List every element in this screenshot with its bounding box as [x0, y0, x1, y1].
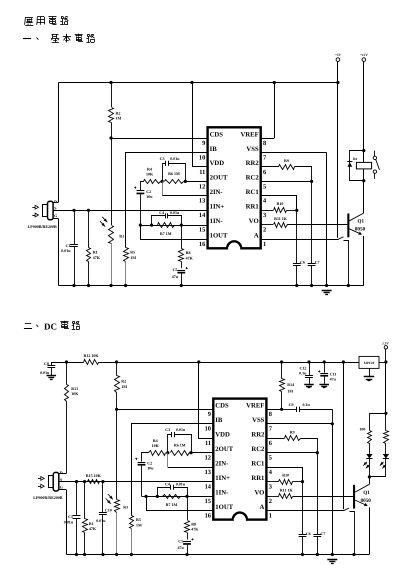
resistor R4 10K	[144, 180, 161, 184]
svg-text:5: 5	[269, 455, 272, 462]
wire regulator to 1.5V	[379, 362, 386, 364]
svg-text:D: D	[54, 199, 57, 204]
wire R10 to junction c2	[292, 481, 302, 483]
svg-text:10: 10	[205, 426, 211, 433]
relay contact switch	[374, 151, 376, 157]
svg-text:1M: 1M	[130, 255, 136, 260]
transistor Q1 8050 c2	[353, 485, 355, 509]
node LED bottom junction	[368, 475, 371, 478]
power terminal +12V	[362, 58, 366, 62]
ground under regulator	[369, 368, 371, 376]
resistor R8 47K c2	[187, 496, 189, 520]
svg-text:RR2: RR2	[246, 160, 260, 167]
svg-text:DC: DC	[44, 322, 57, 332]
svg-text:G: G	[60, 484, 63, 489]
wire Q1 emitter down	[363, 236, 365, 286]
wire C2 to 1OUT node c2	[141, 466, 143, 497]
svg-text:VO: VO	[254, 489, 264, 496]
wire 1IN- (pin15) row	[140, 225, 207, 227]
svg-text:G: G	[54, 213, 57, 218]
wire 1OUT link c2	[147, 497, 214, 511]
svg-text:1IN-: 1IN-	[210, 218, 223, 225]
wire R5 to rail c2	[131, 529, 133, 555]
wire A (pin1) row	[261, 239, 339, 241]
wire sensor D lead c2	[59, 473, 67, 475]
wire RC2 row c2	[266, 452, 317, 454]
wire R3 to ground rail c2	[116, 512, 118, 555]
capacitor C1 0.01u c2	[76, 482, 78, 516]
node rail/VREF junction	[273, 81, 276, 84]
wire C9 down to VSS	[332, 409, 334, 424]
wire R11 to Q1 base c2	[293, 496, 353, 498]
capacitor C9 0.1u	[282, 409, 297, 411]
wire +12V down to relay	[363, 61, 365, 150]
diode D4	[347, 161, 352, 163]
wire 1.5V rail	[117, 362, 359, 364]
svg-text:R1: R1	[93, 250, 98, 255]
wire R12 to rail	[99, 362, 117, 364]
wire RC1 (pin4) to RR1 node	[261, 196, 297, 211]
svg-text:R7 1M: R7 1M	[166, 502, 178, 507]
svg-text:R11 1K: R11 1K	[274, 216, 288, 221]
svg-text:0.01u: 0.01u	[176, 427, 186, 432]
svg-text:C5: C5	[173, 267, 178, 272]
svg-text:+5V: +5V	[335, 53, 342, 57]
capacitor C8 0.01u	[52, 363, 67, 366]
svg-text:13: 13	[199, 198, 205, 205]
ground	[322, 290, 332, 292]
resistor R10 c2	[266, 481, 278, 483]
svg-text:14: 14	[205, 484, 212, 491]
wire VREF (pin8) to rail	[261, 138, 275, 140]
wire VSS to ground c2	[332, 424, 334, 555]
photoresistor R3 c2	[116, 409, 118, 499]
wire Q1 emitter down c2	[369, 507, 371, 554]
resistor R9	[261, 166, 279, 168]
wire A jumper hook	[338, 237, 344, 240]
capacitor C2 10u c2	[135, 458, 137, 460]
resistor R4 10K c2	[149, 451, 166, 456]
node C8/R12/R13 junction	[65, 360, 68, 363]
svg-text:16: 16	[199, 241, 206, 248]
node rail/A-drop junction c2	[342, 360, 345, 363]
capacitor C7 c2	[317, 453, 319, 535]
svg-text:MPF20: MPF20	[364, 361, 375, 365]
node VSS/C9 junction	[331, 422, 334, 425]
op-amp IC U1 BISS0001 c2	[213, 399, 266, 520]
wire R4 to C2	[141, 182, 144, 191]
svg-text:C9: C9	[289, 402, 294, 407]
wire 1IN- row c2	[146, 496, 213, 498]
wire +5V drop to A jumper	[337, 83, 339, 238]
node 1OUT/C2/R7 junction	[139, 224, 142, 227]
node rail/R14 junction	[280, 360, 283, 363]
node rail/C12 junction	[307, 360, 310, 363]
capacitor C6	[296, 210, 298, 263]
svg-text:2: 2	[263, 227, 266, 234]
wire sensor G lead c2	[59, 489, 67, 491]
node C4 left junction	[150, 224, 153, 227]
node R2/R3/CDS junction c2	[115, 408, 118, 411]
svg-text:11: 11	[199, 169, 205, 176]
svg-text:R12 10K: R12 10K	[84, 353, 100, 358]
resistor R2 1M	[111, 83, 113, 108]
node 2OUT/R6/C3 junction c2	[189, 451, 192, 454]
resistor R5 1M	[124, 248, 129, 262]
svg-text:RR2: RR2	[251, 432, 265, 439]
svg-text:A: A	[254, 233, 259, 240]
svg-text:R3: R3	[123, 504, 128, 509]
svg-text:1: 1	[263, 241, 266, 248]
svg-text:R13: R13	[71, 386, 78, 391]
wire relay branch	[363, 151, 365, 181]
wire A jumper hook c2	[343, 508, 349, 511]
title line 3 二、DC 電路	[25, 323, 31, 325]
resistor R2 1M c2	[116, 362, 118, 376]
node C6/ground rail c2	[301, 553, 304, 556]
node A-gnd/ground rail	[347, 284, 350, 287]
wire sensor S row c2	[59, 481, 214, 483]
wire A to ground link c2	[350, 512, 355, 555]
resistor (LED right)	[385, 413, 387, 430]
svg-text:R9: R9	[284, 158, 289, 163]
capacitor C2 10u	[134, 187, 136, 189]
svg-text:C3: C3	[165, 427, 170, 432]
wire R11 to Q1 base	[287, 224, 347, 226]
svg-text:3: 3	[269, 484, 272, 491]
resistor R6 1M c2	[171, 451, 190, 456]
wire R13 to sensor D	[66, 401, 68, 473]
svg-text:12: 12	[205, 455, 211, 462]
node C5/ground rail c2	[185, 553, 188, 556]
pir sensor LP900B/RE200B	[48, 201, 54, 220]
node 1OUT/C2/R7 junction c2	[145, 495, 148, 498]
svg-text:10K: 10K	[71, 391, 79, 396]
svg-text:10u: 10u	[147, 466, 154, 471]
diode D4 loop wire	[350, 151, 364, 181]
svg-text:47K: 47K	[186, 255, 194, 260]
node R1/ground rail c2	[83, 553, 86, 556]
node R3/ground rail c2	[115, 553, 118, 556]
svg-text:R5: R5	[130, 250, 135, 255]
svg-text:VDD: VDD	[210, 160, 225, 167]
node R4/R6/C3/2IN- junction c2	[166, 451, 169, 454]
wire ground rail	[59, 285, 364, 287]
svg-text:R1: R1	[89, 521, 94, 526]
capacitor C5 47u	[181, 262, 183, 269]
wire IB to R5 c2	[132, 424, 214, 516]
transistor Q1 8050	[347, 214, 349, 238]
node R1/ground rail	[87, 284, 90, 287]
svg-text:R8: R8	[186, 250, 191, 255]
svg-text:1M: 1M	[116, 116, 122, 121]
node C1/ground rail	[72, 284, 75, 287]
power terminal +5V	[336, 58, 340, 62]
node rail/VDD-drop junction	[190, 81, 193, 84]
svg-text:C10: C10	[105, 508, 112, 513]
node R5/ground rail c2	[130, 553, 133, 556]
svg-text:RC1: RC1	[251, 460, 264, 467]
svg-text:IB: IB	[210, 146, 218, 153]
capacitor C1 0.01u	[74, 210, 76, 244]
resistor R12 10K	[67, 362, 84, 364]
wire +5V terminal to rail	[337, 61, 339, 82]
svg-text:R8: R8	[191, 521, 196, 526]
svg-text:RC2: RC2	[251, 446, 265, 453]
svg-text:2: 2	[269, 498, 272, 505]
svg-text:LP900B/RE200B: LP900B/RE200B	[28, 224, 57, 229]
node VSS/ground rail	[325, 284, 328, 287]
node C6/ground rail	[295, 284, 298, 287]
ground c2	[327, 559, 337, 561]
svg-text:C8: C8	[44, 361, 49, 366]
capacitor C5 47u c2	[187, 533, 189, 540]
capacitor C4 0.01u	[152, 216, 166, 226]
svg-text:47u: 47u	[172, 274, 179, 279]
svg-text:1OUT: 1OUT	[215, 504, 233, 511]
wire RC2 (pin5) row	[261, 181, 312, 183]
svg-text:13: 13	[205, 469, 211, 476]
svg-text:1IN-: 1IN-	[215, 489, 228, 496]
node R7/R8/1IN- junction c2	[185, 495, 188, 498]
svg-text:Q1: Q1	[358, 219, 365, 225]
wire VDD stub to pin 11	[192, 166, 208, 168]
capacitor C10 0.01u	[102, 482, 104, 513]
svg-text:0.01u: 0.01u	[96, 518, 106, 523]
wire 1.5V to LED branch	[385, 349, 387, 362]
node RR1/RC1/C6 junction	[295, 209, 298, 212]
node R5/ground rail	[124, 284, 127, 287]
node VSS/ground rail c2	[331, 553, 334, 556]
svg-text:9: 9	[202, 140, 205, 147]
svg-text:1IN+: 1IN+	[210, 204, 225, 211]
svg-text:RR1: RR1	[246, 204, 259, 211]
title line 1 應用電路	[25, 17, 33, 19]
wire sensor G lead	[53, 218, 58, 220]
wire R9 to RC2 node c2	[301, 439, 318, 453]
wire R5 to ground rail	[125, 261, 127, 285]
svg-text:R11 1K: R11 1K	[280, 488, 294, 493]
svg-text:47K: 47K	[93, 255, 101, 260]
wire Q1 collector to LEDs c2	[369, 477, 371, 484]
svg-text:1M: 1M	[121, 384, 127, 389]
svg-text:11: 11	[205, 440, 211, 447]
wire CDS row c2	[117, 409, 214, 411]
wire sensor S to 1IN+ (pin14)	[53, 210, 208, 212]
resistor R11 1K c2	[266, 496, 278, 498]
resistor R1 47K	[88, 210, 90, 247]
svg-text:LP900B/RE200B: LP900B/RE200B	[33, 495, 62, 500]
svg-text:R10: R10	[282, 473, 289, 478]
svg-text:8050: 8050	[361, 498, 372, 504]
pir sensor LP900B/RE200B c2	[53, 472, 59, 491]
svg-text:10u: 10u	[146, 194, 153, 199]
svg-text:1OUT: 1OUT	[210, 233, 228, 240]
wire CDS junction to pin 9	[111, 138, 208, 140]
node LED top junction	[384, 412, 387, 415]
resistor R5 1M c2	[130, 516, 134, 529]
node A-gnd/ground rail c2	[352, 553, 355, 556]
capacitor C11 47u	[324, 362, 326, 373]
svg-text:0.01u: 0.01u	[176, 482, 186, 487]
wire +5V top rail	[59, 82, 338, 84]
svg-text:C1: C1	[68, 514, 73, 519]
resistor R6 1M	[165, 180, 184, 184]
led D1	[369, 443, 371, 454]
svg-text:R3: R3	[119, 234, 124, 239]
svg-text:2OUT: 2OUT	[210, 175, 228, 182]
svg-text:A: A	[260, 504, 265, 511]
capacitor C3 0.01u	[163, 164, 166, 182]
svg-text:10K: 10K	[152, 443, 160, 448]
svg-text:RC2: RC2	[246, 175, 260, 182]
node relay bottom junction	[362, 179, 365, 182]
node rail/+5V junction	[336, 81, 339, 84]
svg-text:R9: R9	[290, 429, 295, 434]
wire 2OUT (pin12) to R6	[185, 181, 207, 183]
power terminal 1.5V	[384, 346, 387, 349]
node 1.5V junction	[384, 360, 387, 363]
node R4/R6/C3/2IN- junction	[161, 180, 164, 183]
svg-text:R7 1M: R7 1M	[160, 231, 172, 236]
svg-text:0.1u: 0.1u	[299, 371, 307, 376]
svg-text:8: 8	[263, 140, 266, 147]
node rail/R2 junction	[109, 81, 112, 84]
node RC2/C7 junction c2	[316, 451, 319, 454]
light arrows into R3	[102, 217, 107, 222]
node RR1/RC1/C6 junction c2	[301, 480, 304, 483]
node C4 left junction c2	[156, 495, 159, 498]
node R2/R3/CDS junction	[109, 136, 112, 139]
wire CDS junction down to R3	[111, 138, 113, 225]
wire rail to VDD (pin11) vertical	[192, 83, 194, 167]
svg-text:8: 8	[269, 411, 272, 418]
svg-text:5: 5	[263, 183, 266, 190]
resistor R14 1M	[281, 362, 283, 379]
wire R7 row left end c2	[142, 496, 147, 498]
node R7/R8/1IN- junction	[180, 224, 183, 227]
svg-text:2IN-: 2IN-	[215, 460, 228, 467]
wire sensor D lead	[53, 202, 58, 204]
svg-text:+12V: +12V	[360, 53, 368, 57]
capacitor C3 0.01u c2	[168, 435, 172, 453]
wire 2IN- (pin13) to junction	[162, 195, 208, 197]
svg-text:CDS: CDS	[215, 403, 229, 410]
svg-text:R6 1M: R6 1M	[168, 171, 180, 176]
wire A row c2	[266, 510, 344, 512]
wire left vertical from rail to sensor D	[58, 83, 60, 203]
node RC2/C7 junction	[310, 180, 313, 183]
node S/C1 junction	[72, 209, 75, 212]
svg-text:0.01u: 0.01u	[40, 370, 50, 375]
node VREF/R14/C9 junction	[280, 408, 283, 411]
svg-text:VREF: VREF	[240, 131, 258, 138]
op-amp IC U1 BISS0001	[208, 127, 261, 248]
node S/C1 junction c2	[75, 480, 78, 483]
svg-text:C5: C5	[178, 539, 183, 544]
wire Q1 collector to relay	[363, 181, 365, 213]
svg-text:8050: 8050	[355, 227, 366, 233]
node rail/R2 junction c2	[115, 360, 118, 363]
svg-text:10K: 10K	[146, 172, 154, 177]
resistor R10	[261, 210, 273, 212]
svg-text:C7: C7	[315, 260, 320, 265]
svg-text:C3: C3	[160, 156, 165, 161]
svg-text:0.1u: 0.1u	[303, 402, 311, 407]
svg-text:VO: VO	[249, 218, 259, 225]
node rail/C11 junction	[323, 360, 326, 363]
node C7/ground rail	[310, 284, 313, 287]
svg-text:IB: IB	[215, 417, 223, 424]
svg-text:VSS: VSS	[252, 417, 265, 424]
svg-text:47K: 47K	[191, 527, 199, 532]
wire VREF row c2	[266, 409, 281, 411]
svg-text:R2: R2	[121, 379, 126, 384]
svg-text:VDD: VDD	[215, 432, 230, 439]
svg-text:1M: 1M	[136, 522, 142, 527]
resistor R7 1M c2	[163, 495, 181, 499]
resistor R15 10K	[88, 480, 100, 484]
wire R3 to ground rail	[111, 244, 113, 286]
svg-text:RC1: RC1	[246, 189, 259, 196]
svg-text:47u: 47u	[330, 376, 337, 381]
node C7/ground rail c2	[316, 553, 319, 556]
node S/R1 junction c2	[83, 480, 86, 483]
capacitor C7	[311, 181, 313, 263]
svg-text:9: 9	[208, 411, 211, 418]
capacitor C4 0.01u c2	[158, 488, 171, 497]
node C5/ground rail	[180, 284, 183, 287]
svg-text:12: 12	[199, 183, 205, 190]
svg-text:R5: R5	[136, 517, 141, 522]
wire RC1 to RR1 node c2	[267, 468, 303, 482]
svg-text:VREF: VREF	[246, 403, 264, 410]
node S/C10 junction	[101, 480, 104, 483]
node R3/ground rail	[109, 284, 112, 287]
resistor R9 c2	[266, 438, 284, 440]
node relay top junction	[362, 149, 365, 152]
svg-text:0.01u: 0.01u	[64, 520, 74, 525]
svg-text:0.01u: 0.01u	[170, 156, 180, 161]
svg-text:C6: C6	[306, 531, 311, 536]
svg-text:C1: C1	[66, 243, 71, 248]
svg-text:Q1: Q1	[363, 490, 370, 496]
wire 2IN- to junction c2	[168, 467, 214, 469]
svg-text:10: 10	[199, 154, 205, 161]
svg-text:R6 1M: R6 1M	[174, 442, 186, 447]
svg-text:1: 1	[269, 512, 272, 519]
wire R9 to RC2 node	[295, 167, 312, 182]
node 2OUT/R6/C3 junction	[184, 180, 187, 183]
node C1/ground rail c2	[75, 553, 78, 556]
title line 2 一、基本電路	[23, 38, 31, 40]
svg-text:0.01u: 0.01u	[61, 248, 71, 253]
wire rail drop to A jumper c2	[343, 362, 345, 509]
svg-text:1M: 1M	[287, 389, 293, 394]
resistor R13 10K	[66, 362, 68, 385]
svg-text:100: 100	[359, 427, 365, 432]
resistor R8 47K	[181, 225, 183, 249]
svg-text:R10: R10	[277, 201, 284, 206]
svg-text:D: D	[60, 470, 63, 475]
svg-text:2IN-: 2IN-	[210, 189, 223, 196]
photoresistor R3	[109, 226, 114, 244]
svg-text:C7: C7	[321, 531, 326, 536]
relay coil K1	[356, 162, 371, 169]
svg-text:C6: C6	[300, 260, 305, 265]
wire 2OUT row c2	[191, 452, 213, 454]
wire R10 to junction	[287, 210, 297, 212]
